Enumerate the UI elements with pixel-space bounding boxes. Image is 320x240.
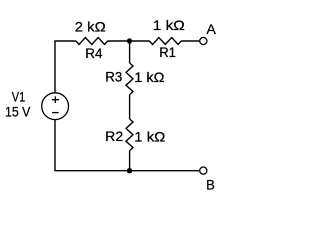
wire from junction to R1: [130, 40, 150, 42]
wire left rail upper (top corner down to source): [54, 41, 56, 92]
junction node bottom: [127, 168, 132, 173]
svg-text:A: A: [206, 21, 216, 37]
voltage source V1: [42, 93, 69, 120]
terminal A: [200, 37, 207, 44]
svg-text:B: B: [206, 177, 215, 193]
junction node top: [127, 38, 132, 43]
wire from R4 to node junction: [108, 40, 130, 42]
wire from R1 to terminal A: [181, 40, 199, 42]
wire bottom from junction to terminal B: [130, 170, 200, 172]
resistor R3: [126, 63, 133, 95]
svg-text:2 kΩ: 2 kΩ: [75, 19, 106, 35]
svg-text:1 kΩ: 1 kΩ: [153, 17, 185, 33]
minus sign of V1: [52, 112, 59, 114]
svg-text:V1: V1: [12, 88, 26, 104]
wire bottom from left rail to junction: [54, 170, 129, 172]
wire between R3 and R2: [129, 95, 131, 119]
svg-text:R3: R3: [105, 69, 122, 85]
svg-text:R4: R4: [85, 45, 102, 61]
wire top-left from left rail to R4: [54, 40, 76, 42]
wire R2 to bottom junction: [129, 151, 131, 171]
resistor R4: [76, 38, 108, 45]
svg-text:R2: R2: [105, 128, 123, 144]
terminal B: [200, 167, 207, 174]
svg-text:R1: R1: [159, 44, 176, 60]
resistor R1: [150, 38, 182, 45]
wire middle stub junction to R3: [129, 41, 131, 63]
svg-text:1 kΩ: 1 kΩ: [134, 69, 164, 85]
wire left rail lower (source to bottom corner): [54, 120, 56, 171]
plus sign of V1: [52, 96, 59, 103]
svg-text:15 V: 15 V: [5, 103, 31, 119]
resistor R2: [126, 119, 133, 151]
svg-text:1 kΩ: 1 kΩ: [134, 128, 165, 144]
